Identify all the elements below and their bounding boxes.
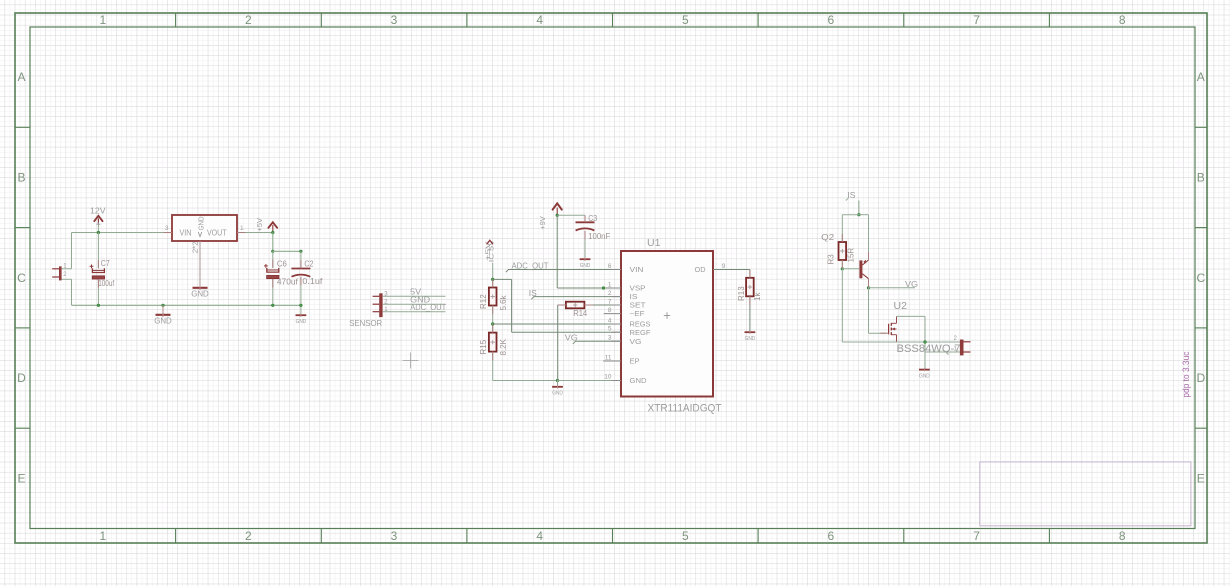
svg-text:C2: C2 [304, 259, 313, 268]
wire [557, 305, 559, 381]
wire [859, 214, 869, 216]
label U1 [647, 237, 661, 249]
svg-text:VIN: VIN [630, 265, 644, 274]
wire VSP [557, 287, 621, 289]
node [924, 341, 927, 344]
wire drain run [841, 269, 843, 342]
svg-text:VIN: VIN [180, 228, 192, 237]
wire [272, 279, 274, 305]
svg-text:D: D [17, 371, 26, 385]
IC U1 box [621, 251, 713, 397]
svg-text:12V: 12V [90, 205, 106, 215]
wire GND pin [558, 380, 622, 382]
capacitor C6 [264, 259, 299, 286]
node [491, 278, 494, 281]
U1 pin names [630, 265, 651, 385]
wire [492, 306, 494, 333]
svg-text:VOUT: VOUT [207, 228, 227, 237]
svg-text:8: 8 [1119, 529, 1126, 543]
ground small under U2 [919, 368, 930, 379]
wire ADC_OUT to U1 [506, 270, 621, 273]
label +5V vertical [485, 240, 492, 260]
node [97, 304, 100, 307]
resistor R3 [821, 232, 855, 265]
frame row ticks [15, 127, 1207, 428]
label ADC_OUT [410, 302, 446, 312]
wire [272, 233, 274, 252]
svg-text:VG: VG [565, 332, 578, 342]
resistor R13 [737, 278, 762, 301]
supply arrow small [487, 240, 493, 244]
node [867, 287, 870, 290]
U1 origin cross [664, 312, 670, 318]
pin 3 label [165, 225, 169, 232]
label XTR111AIDGQT [648, 403, 722, 415]
wire [512, 331, 621, 333]
svg-text:BSS84WQ-7: BSS84WQ-7 [897, 343, 961, 355]
wire [62, 278, 72, 280]
wire [492, 263, 494, 288]
svg-text:U1: U1 [647, 237, 661, 249]
wire [924, 316, 926, 369]
svg-text:5: 5 [682, 529, 689, 543]
svg-text:5: 5 [608, 326, 612, 333]
svg-text:2*2: 2*2 [192, 241, 199, 253]
svg-text:5: 5 [682, 13, 689, 27]
label BSS84WQ-7 [897, 343, 961, 355]
svg-text:3: 3 [391, 13, 398, 27]
wire [97, 233, 99, 269]
svg-text:7: 7 [973, 13, 980, 27]
wire [199, 241, 201, 286]
label IC 5V vertical [489, 239, 496, 263]
svg-text:10: 10 [604, 374, 612, 381]
svg-text:100uf: 100uf [98, 279, 115, 288]
svg-text:3: 3 [608, 335, 612, 342]
wire [868, 215, 870, 260]
component pin stubs [98, 215, 888, 360]
svg-text:R12: R12 [479, 294, 488, 309]
node 12V junction [97, 231, 100, 234]
svg-text:GND: GND [198, 216, 205, 230]
svg-text:0.1uf: 0.1uf [302, 277, 323, 286]
wire [493, 323, 621, 325]
svg-text:4: 4 [536, 13, 543, 27]
svg-text:8: 8 [1119, 13, 1126, 27]
pin 1 label [240, 225, 244, 232]
wire VG [869, 287, 916, 289]
capacitor C2 [291, 259, 323, 285]
label VG [565, 332, 578, 342]
svg-text:Q2: Q2 [821, 232, 834, 242]
svg-text:1: 1 [240, 225, 244, 232]
wire [584, 215, 586, 222]
wire [584, 304, 621, 306]
wire [868, 288, 870, 333]
wire [558, 304, 566, 306]
svg-text:C3: C3 [588, 214, 597, 223]
svg-text:EP: EP [630, 357, 640, 366]
wire [300, 277, 302, 315]
node [272, 304, 275, 307]
title block rectangle [980, 462, 1191, 526]
wire GND run [493, 380, 621, 382]
label GND [410, 294, 430, 304]
svg-text:~EF: ~EF [630, 309, 645, 318]
wire [842, 214, 859, 216]
svg-text:pdp to 3.3uc: pdp to 3.3uc [1181, 351, 1191, 397]
wire [97, 279, 99, 305]
resistor R14 [566, 302, 588, 319]
wire [841, 260, 843, 269]
U1 pin stubs [612, 270, 622, 381]
supply +5V [257, 218, 277, 233]
svg-text:IS: IS [847, 190, 855, 200]
wire ADC_OUT [383, 311, 446, 313]
svg-text:C: C [17, 271, 26, 285]
transistor U2 MOSFET [889, 316, 897, 342]
svg-text:C6: C6 [277, 259, 287, 268]
label IS [529, 288, 537, 298]
transistor Q2 [859, 260, 868, 279]
wire [493, 278, 512, 280]
svg-text:100nF: 100nF [588, 232, 610, 241]
svg-text:GND: GND [552, 391, 563, 397]
svg-text:ADC_OUT: ADC_OUT [512, 261, 549, 271]
node [272, 231, 275, 234]
svg-text:C: C [1196, 271, 1205, 285]
origin cross [403, 353, 419, 369]
svg-text:E: E [17, 471, 25, 485]
svg-text:4: 4 [608, 318, 612, 325]
wire 12V rail [72, 232, 173, 234]
svg-text:OD: OD [695, 265, 706, 274]
svg-text:8: 8 [608, 307, 612, 314]
svg-text:U2: U2 [894, 300, 908, 312]
svg-text:GND: GND [154, 317, 172, 326]
svg-text:ADC_OUT: ADC_OUT [410, 302, 446, 312]
capacitor C3 [576, 214, 611, 241]
ground GND mid [154, 305, 172, 325]
label pdp to 3.3uc [1181, 351, 1191, 397]
wire [869, 332, 887, 334]
U1 pin numbers [604, 263, 612, 381]
frame row letters left [17, 70, 26, 485]
regulator pin texts [180, 216, 227, 237]
svg-text:R13: R13 [737, 286, 746, 301]
svg-text:XTR111AIDGQT: XTR111AIDGQT [648, 403, 722, 415]
wire [237, 232, 273, 234]
svg-text:R3: R3 [827, 254, 836, 265]
svg-text:3: 3 [165, 225, 169, 232]
capacitor C7 [90, 259, 115, 288]
svg-text:E: E [1197, 471, 1205, 485]
frame column numbers bottom [99, 529, 1125, 543]
ground GND regulator [191, 286, 209, 299]
supply 12V [90, 205, 106, 226]
frame row letters right [1196, 70, 1205, 485]
wire [841, 215, 843, 242]
wire [584, 231, 586, 259]
svg-text:B: B [1197, 171, 1205, 185]
resistor R15 [479, 333, 508, 356]
svg-text:6: 6 [828, 529, 835, 543]
node [556, 214, 559, 217]
pin stub EP [603, 360, 621, 362]
label 5V [410, 286, 421, 296]
node [858, 213, 861, 216]
svg-text:GND: GND [580, 263, 591, 269]
wire [492, 352, 494, 381]
svg-text:A: A [1197, 70, 1205, 84]
svg-text:REGF: REGF [630, 328, 651, 337]
svg-text:+5V: +5V [257, 218, 264, 232]
svg-text:4: 4 [536, 529, 543, 543]
svg-text:GND: GND [630, 376, 648, 385]
wire [842, 341, 960, 343]
node [272, 250, 275, 253]
wire [897, 315, 926, 317]
svg-text:7: 7 [973, 529, 980, 543]
node [602, 287, 605, 290]
wire 5V [383, 295, 446, 297]
wire [925, 351, 960, 353]
svg-text:IS: IS [529, 288, 537, 298]
connector X1 [52, 263, 67, 280]
wire [272, 251, 274, 268]
resistor R12 [479, 288, 508, 311]
connector X2 [953, 336, 970, 355]
svg-text:GND: GND [745, 336, 756, 342]
wire IS to U1 [531, 297, 621, 300]
label ADC_OUT [512, 261, 549, 271]
wire [511, 279, 513, 332]
supply +9V [538, 203, 562, 229]
svg-text:11: 11 [605, 355, 612, 362]
wire [556, 215, 558, 288]
wire [71, 279, 73, 305]
svg-text:B: B [17, 171, 25, 185]
svg-text:2: 2 [608, 290, 612, 297]
svg-text:1k: 1k [753, 292, 762, 301]
node [841, 268, 844, 271]
svg-text:2: 2 [245, 13, 252, 27]
frame column ticks [176, 13, 1050, 543]
svg-text:8.2K: 8.2K [499, 338, 508, 355]
svg-text:C7: C7 [101, 259, 110, 268]
svg-text:+9V: +9V [538, 216, 547, 230]
svg-text:VG: VG [905, 279, 918, 289]
svg-text:VG: VG [630, 337, 642, 346]
pin 2*2 label [192, 241, 199, 253]
svg-text:D: D [1196, 371, 1205, 385]
wire [557, 214, 585, 216]
svg-text:SENSOR: SENSOR [349, 318, 382, 328]
svg-text:5.6k: 5.6k [499, 294, 508, 310]
wire [62, 268, 72, 270]
node [556, 379, 559, 382]
wire OD [713, 269, 750, 271]
svg-text:1: 1 [99, 529, 106, 543]
U1 pin name OD [695, 265, 706, 274]
wire [97, 225, 99, 233]
svg-text:GND: GND [191, 290, 209, 299]
wire VG to U1 [573, 341, 621, 344]
svg-text:6: 6 [608, 263, 612, 270]
frame column numbers top [99, 13, 1125, 27]
ground small under R13 [745, 331, 756, 342]
svg-text:1: 1 [608, 282, 612, 289]
ground small under C3 [580, 258, 591, 269]
label IS [846, 190, 856, 201]
wire [749, 296, 751, 332]
pin stub ~EF [604, 313, 621, 315]
wire [842, 268, 859, 270]
wire [858, 201, 860, 215]
ground small under C2 [296, 314, 307, 325]
node [162, 304, 165, 307]
wire GND bus [72, 304, 301, 306]
node [300, 250, 303, 253]
regulator IC box [172, 215, 237, 241]
wire [71, 233, 73, 269]
svg-text:7: 7 [608, 299, 612, 306]
wire [273, 250, 301, 252]
svg-text:2: 2 [245, 529, 252, 543]
wire [749, 270, 751, 278]
svg-text:GND: GND [296, 319, 307, 325]
svg-text:1: 1 [99, 13, 106, 27]
svg-text:R15: R15 [479, 339, 488, 354]
svg-text:R14: R14 [573, 309, 588, 318]
svg-text:A: A [17, 70, 25, 84]
svg-text:6: 6 [828, 13, 835, 27]
wire [868, 279, 870, 288]
svg-text:9: 9 [722, 263, 726, 270]
wire [300, 251, 302, 268]
wire GND [383, 303, 446, 305]
svg-text:470uf: 470uf [277, 278, 299, 287]
connector SENSOR [349, 292, 388, 329]
node [491, 323, 494, 326]
svg-text:3: 3 [391, 529, 398, 543]
label VG [905, 279, 918, 289]
svg-text:GND: GND [919, 373, 930, 379]
pin 9 label [722, 263, 726, 270]
label U2 [894, 300, 908, 312]
node [300, 304, 303, 307]
svg-text:15R: 15R [847, 248, 856, 263]
ground small [552, 381, 563, 397]
